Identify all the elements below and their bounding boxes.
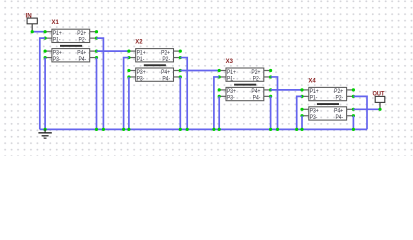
X2 pin P3- bbox=[127, 75, 135, 78]
X1 pin P4- bbox=[90, 56, 98, 59]
junction bbox=[352, 128, 355, 131]
X1 pin P2+ bbox=[90, 30, 98, 33]
junction bbox=[186, 128, 189, 131]
ground bbox=[38, 129, 51, 138]
wire X2.P2- to ground bus bbox=[180, 58, 187, 130]
port OUT pin bbox=[379, 102, 381, 109]
X2 pin P1+ bbox=[127, 50, 135, 53]
transformer X2 bbox=[127, 38, 182, 82]
svg-text:P3-: P3- bbox=[227, 95, 235, 102]
svg-text:P2-: P2- bbox=[253, 76, 261, 83]
wire X2.P3- to ground bus bbox=[128, 77, 130, 129]
X3 pin P3+ bbox=[218, 88, 226, 91]
X2 primary box bbox=[136, 49, 174, 62]
svg-text:P2-: P2- bbox=[335, 95, 343, 102]
svg-text:OUT: OUT bbox=[373, 90, 385, 98]
wire X1.P1- to ground bus bbox=[40, 38, 45, 129]
junction bbox=[127, 128, 130, 131]
wire X3.P4- to ground bus bbox=[270, 96, 272, 129]
wire X1.P2- to ground bus bbox=[97, 38, 104, 129]
X3 secondary box bbox=[226, 87, 264, 100]
wire X4.P4- to ground bus bbox=[352, 116, 354, 130]
wire X2.P4- to ground bus bbox=[179, 77, 181, 129]
wire IN to X1.P1+ bbox=[32, 31, 45, 33]
node IN junction bbox=[31, 30, 34, 33]
port OUT terminal bbox=[375, 96, 385, 102]
junction bbox=[218, 128, 221, 131]
X2 pin P2+ bbox=[174, 50, 182, 53]
X2 pin P4+ bbox=[174, 69, 182, 72]
junction bbox=[44, 128, 47, 131]
svg-text:IN: IN bbox=[26, 12, 32, 19]
X3 pin P1- bbox=[218, 75, 226, 78]
X3 pin P2+ bbox=[264, 69, 272, 72]
wire X4.P3- to ground bus bbox=[301, 116, 303, 130]
wire X1.P4+ to X2.P1+ bbox=[97, 50, 129, 52]
X3 primary box bbox=[226, 68, 264, 81]
junction bbox=[295, 128, 298, 131]
X1 secondary box bbox=[52, 49, 90, 62]
junction bbox=[212, 128, 215, 131]
X4 pin P1+ bbox=[300, 88, 308, 91]
svg-text:P4-: P4- bbox=[162, 76, 170, 83]
X3 pin P3- bbox=[218, 95, 226, 98]
svg-text:X1: X1 bbox=[52, 19, 60, 26]
X3 pin P4+ bbox=[264, 88, 272, 91]
X1 pin P3- bbox=[44, 56, 52, 59]
wire X4.P1- to ground bus bbox=[297, 96, 302, 129]
X2 pin P1- bbox=[127, 56, 135, 59]
wire X1.P3- to ground bus bbox=[44, 58, 46, 130]
svg-text:P3-: P3- bbox=[53, 56, 61, 63]
port IN terminal bbox=[27, 18, 37, 24]
X2 pin P2- bbox=[174, 56, 182, 59]
svg-text:P3-: P3- bbox=[310, 115, 318, 122]
wire ground bus bbox=[40, 128, 367, 130]
wire X4.P2- to ground bus bbox=[353, 96, 367, 129]
X3 pin P4- bbox=[264, 95, 272, 98]
svg-text:X4: X4 bbox=[308, 77, 316, 84]
transformer X3 bbox=[218, 58, 273, 102]
X2 pin P3+ bbox=[127, 69, 135, 72]
X2 core bbox=[144, 64, 166, 66]
svg-text:P1-: P1- bbox=[137, 56, 145, 63]
junction bbox=[102, 128, 105, 131]
svg-text:P4-: P4- bbox=[335, 115, 343, 122]
X4 pin P3+ bbox=[300, 108, 308, 111]
svg-text:P1-: P1- bbox=[53, 37, 61, 44]
X4 pin P2- bbox=[347, 95, 355, 98]
X4 pin P4+ bbox=[347, 108, 355, 111]
wire X3.P2- to ground bus bbox=[271, 77, 278, 129]
junction bbox=[122, 128, 125, 131]
junction bbox=[269, 128, 272, 131]
wire X2.P4+ to X3.P1+ bbox=[180, 70, 219, 72]
node OUT junction bbox=[378, 108, 381, 111]
X1 primary box bbox=[52, 29, 90, 42]
svg-text:P1-: P1- bbox=[227, 76, 235, 83]
X4 pin P2+ bbox=[347, 88, 355, 91]
svg-text:X2: X2 bbox=[135, 38, 143, 45]
X3 pin P1+ bbox=[218, 69, 226, 72]
svg-text:P4-: P4- bbox=[253, 95, 261, 102]
X4 pin P3- bbox=[300, 114, 308, 117]
wire X3.P4+ to X4.P1+ bbox=[271, 89, 302, 91]
X4 primary box bbox=[309, 87, 347, 100]
svg-text:P4-: P4- bbox=[79, 56, 87, 63]
X1 pin P1- bbox=[44, 37, 52, 40]
X4 secondary box bbox=[309, 107, 347, 120]
junction bbox=[300, 128, 303, 131]
transformer X1 bbox=[44, 19, 99, 63]
X1 pin P1+ bbox=[44, 30, 52, 33]
X4 pin P1- bbox=[300, 95, 308, 98]
wire X1.P4- to ground bus bbox=[96, 58, 98, 130]
svg-text:P3-: P3- bbox=[137, 76, 145, 83]
X3 pin P2- bbox=[264, 75, 272, 78]
wire X2.P1- to ground bus bbox=[124, 58, 129, 130]
X2 pin P4- bbox=[174, 75, 182, 78]
wire X3.P3- to ground bus bbox=[218, 96, 220, 129]
X3 core bbox=[234, 84, 256, 86]
svg-text:X3: X3 bbox=[226, 58, 234, 65]
junction bbox=[95, 128, 98, 131]
X1 pin P4+ bbox=[90, 50, 98, 53]
transformer X4 bbox=[300, 77, 355, 121]
junction bbox=[179, 128, 182, 131]
svg-text:P1-: P1- bbox=[310, 95, 318, 102]
svg-text:P2-: P2- bbox=[162, 56, 170, 63]
X4 pin P4- bbox=[347, 114, 355, 117]
wire X4.P4+ to OUT bbox=[353, 108, 380, 110]
wire X3.P1- to ground bus bbox=[214, 77, 219, 129]
junction bbox=[276, 128, 279, 131]
svg-text:P2-: P2- bbox=[79, 37, 87, 44]
X1 pin P2- bbox=[90, 37, 98, 40]
port IN pin bbox=[31, 24, 33, 32]
X1 pin P3+ bbox=[44, 50, 52, 53]
X2 secondary box bbox=[136, 68, 174, 81]
X4 core bbox=[317, 103, 339, 105]
X1 core bbox=[60, 45, 82, 47]
